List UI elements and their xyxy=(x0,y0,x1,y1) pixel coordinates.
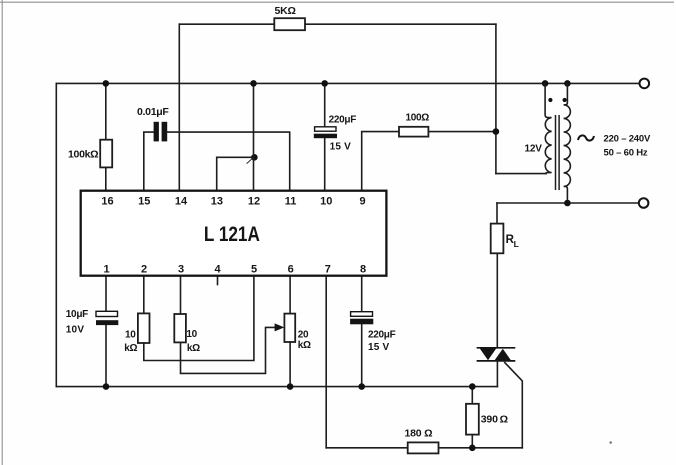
wire primary bottom rail y=203 xyxy=(497,202,639,204)
scan frame left edge xyxy=(1,0,3,465)
svg-text:220μF: 220μF xyxy=(329,115,357,126)
svg-text:L: L xyxy=(514,239,519,249)
svg-text:12V: 12V xyxy=(525,144,543,155)
wire left rail xyxy=(55,83,57,386)
svg-text:kΩ: kΩ xyxy=(187,343,200,354)
svg-text:220 – 240V: 220 – 240V xyxy=(604,134,651,145)
svg-text:2: 2 xyxy=(141,263,147,275)
capacitor 220µF (lower) xyxy=(350,312,373,325)
junction node 390Ω bottom xyxy=(469,445,476,452)
wire pin 9 up to 100Ω xyxy=(362,132,399,191)
wire 0.01µF to pin 11 xyxy=(167,132,290,191)
junction node rail/secondary xyxy=(542,80,549,87)
junction node rail/pin12 xyxy=(250,80,257,87)
svg-text:1: 1 xyxy=(104,263,110,275)
wire pin 1 upper (IC to 10µF) xyxy=(105,276,107,312)
resistor RL xyxy=(491,224,504,254)
wire gate bottom / 180Ω run xyxy=(326,447,522,449)
wire 390Ω branch xyxy=(471,387,473,448)
junction node rail/pin8 xyxy=(358,383,365,390)
svg-text:10: 10 xyxy=(320,195,332,207)
wire pin 8 lower (220µF to rail) xyxy=(361,324,363,386)
svg-text:14: 14 xyxy=(175,195,188,207)
wire pin 7 to 180Ω run xyxy=(325,276,327,448)
triac Q1 xyxy=(477,348,516,361)
wire pin2 resistor to pin 5 xyxy=(144,276,254,361)
transformer T1 primary winding xyxy=(564,83,571,203)
junction node rail/390Ω top xyxy=(469,383,476,390)
polarity dot secondary xyxy=(548,98,552,102)
resistor 100Ω xyxy=(399,127,428,137)
wire pin 10 upper segment (rail to 220µF) xyxy=(324,83,326,127)
svg-text:220μF: 220μF xyxy=(368,330,396,341)
wire bottom common rail xyxy=(56,386,497,388)
wire pin 10 lower segment (220µF to pin 10) xyxy=(324,138,326,191)
label 10kΩ (pin2) xyxy=(124,329,137,354)
wire pin 15 to 0.01µF xyxy=(144,132,154,191)
junction node rail/primary xyxy=(564,80,571,87)
svg-text:10: 10 xyxy=(125,329,136,340)
junction node right branch / 100Ω xyxy=(493,128,500,135)
wire pin 2 to resistor xyxy=(143,276,145,314)
terminal lower right xyxy=(639,198,649,208)
svg-text:13: 13 xyxy=(211,195,223,207)
transformer T1 core xyxy=(556,115,560,190)
svg-text:10μF: 10μF xyxy=(66,309,88,320)
svg-text:4: 4 xyxy=(214,263,221,275)
junction node rail/pin16 xyxy=(103,80,110,87)
wire secondary bottom horizontal xyxy=(496,173,546,175)
wire top rail (pin14 to right branch) xyxy=(179,23,496,25)
svg-text:100Ω: 100Ω xyxy=(406,112,430,123)
resistor 180Ω xyxy=(408,442,439,453)
stray tick at junction xyxy=(247,159,253,164)
wire pin 3 to resistor xyxy=(180,276,182,314)
svg-text:10V: 10V xyxy=(66,325,85,336)
label 10kΩ (pin3) xyxy=(186,329,200,354)
wire pin 4 stub xyxy=(217,276,219,285)
wire triac gate xyxy=(505,363,523,448)
wire pin 14 vertical (top rail down to IC pin 14) xyxy=(178,24,180,191)
wire pin 12 vertical (rail to pin 12) xyxy=(253,83,255,190)
resistor 10kΩ (pin3) xyxy=(174,314,186,342)
svg-text:7: 7 xyxy=(325,263,331,275)
polarity dot primary xyxy=(563,98,567,102)
resistor 5kΩ xyxy=(274,18,305,30)
label 20kΩ xyxy=(298,329,311,351)
junction node rail/pin10 xyxy=(321,80,328,87)
svg-text:L 121A: L 121A xyxy=(204,223,260,246)
wire pin 13 up and right xyxy=(217,157,255,190)
wire pot to rail xyxy=(289,342,291,387)
resistor 100kΩ xyxy=(100,140,112,168)
svg-text:20: 20 xyxy=(298,329,309,340)
svg-text:11: 11 xyxy=(285,195,297,207)
wire pin 1 lower (10µF to rail) xyxy=(105,325,107,387)
op-amp / IC U1 L121A xyxy=(81,191,387,276)
scan frame top edge xyxy=(0,1,674,3)
label RL xyxy=(506,234,519,249)
svg-text:180 Ω: 180 Ω xyxy=(405,428,433,440)
svg-text:16: 16 xyxy=(101,195,113,207)
svg-text:10: 10 xyxy=(186,329,197,340)
svg-text:15 V: 15 V xyxy=(368,342,390,353)
svg-text:12: 12 xyxy=(248,195,260,207)
wire pin3 resistor to wiper xyxy=(181,327,278,373)
wire pin 8 upper (IC to 220µF) xyxy=(361,276,363,313)
wire triac bottom to rail xyxy=(496,361,498,387)
terminal upper right xyxy=(640,79,650,89)
wire pin 6 to pot xyxy=(289,276,291,314)
junction node rail/pot xyxy=(287,383,294,390)
junction node primary bottom xyxy=(564,200,571,207)
svg-text:kΩ: kΩ xyxy=(298,340,311,351)
svg-text:390 Ω: 390 Ω xyxy=(481,414,508,426)
capacitor 10µF xyxy=(96,311,118,325)
svg-text:50 – 60 Hz: 50 – 60 Hz xyxy=(604,147,648,158)
wire pin 16 branch (rail to pin 16) xyxy=(105,83,107,190)
capacitor 0.01µF xyxy=(154,122,168,142)
potentiometer 20kΩ xyxy=(284,314,295,342)
scan speck xyxy=(609,441,612,444)
junction node pin13/pin12 xyxy=(251,154,258,161)
resistor 10kΩ (pin2) xyxy=(138,313,150,343)
svg-text:15: 15 xyxy=(138,195,150,207)
wiper arrowhead xyxy=(275,323,285,331)
wire RL top xyxy=(496,203,498,224)
capacitor 220µF (upper) xyxy=(314,127,337,138)
wire RL to triac xyxy=(496,253,498,347)
svg-text:100kΩ: 100kΩ xyxy=(68,148,98,160)
svg-text:5KΩ: 5KΩ xyxy=(275,5,296,17)
ac symbol ~ xyxy=(578,135,594,140)
svg-text:0.01μF: 0.01μF xyxy=(137,106,169,118)
transformer T1 secondary winding xyxy=(545,83,552,173)
svg-text:6: 6 xyxy=(288,263,294,275)
svg-text:8: 8 xyxy=(360,263,366,275)
wire right branch vertical (top rail down to secondary) xyxy=(495,24,497,173)
svg-text:5: 5 xyxy=(251,263,257,275)
svg-text:kΩ: kΩ xyxy=(124,343,137,354)
resistor 390Ω xyxy=(466,404,479,435)
junction node rail/pin1 xyxy=(103,383,110,390)
svg-text:15 V: 15 V xyxy=(330,142,352,153)
wire 100Ω to right branch xyxy=(428,131,496,133)
svg-text:3: 3 xyxy=(178,263,184,275)
wire supply rail y=83 xyxy=(56,82,639,84)
svg-text:9: 9 xyxy=(360,195,366,207)
